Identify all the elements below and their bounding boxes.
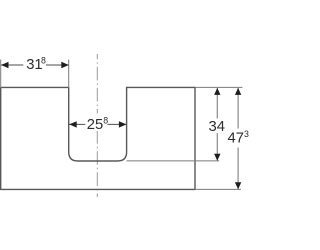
- arrowhead 34 top: [214, 88, 220, 95]
- text background over centerline: [84, 114, 108, 132]
- arrowhead 34 bottom: [214, 154, 220, 161]
- extension line cutout bottom right: [127, 160, 220, 162]
- countertop outline with cutout: [1, 87, 195, 189]
- centerline: [96, 54, 98, 197]
- extension line top right: [195, 86, 242, 88]
- arrowhead 47.3 top: [235, 88, 241, 95]
- dimension line 47.3: [237, 88, 239, 129]
- svg-text:34: 34: [209, 119, 225, 135]
- arrowhead 31.8 right: [61, 62, 69, 68]
- extension line plate bottom right: [195, 188, 241, 190]
- svg-text:318: 318: [26, 55, 46, 73]
- extension line left of dim 31.8: [0, 60, 2, 89]
- arrowhead 25.8 left: [69, 121, 77, 127]
- dimension line 25.8: [69, 123, 85, 125]
- svg-text:473: 473: [228, 129, 249, 147]
- dimension line 31.8: [1, 64, 23, 66]
- extension line right of dim 31.8: [68, 60, 70, 89]
- dimension line 34: [216, 88, 218, 119]
- arrowhead 31.8 left: [1, 62, 9, 68]
- arrowhead 47.3 bottom: [235, 182, 241, 189]
- arrowhead 25.8 right: [119, 121, 127, 127]
